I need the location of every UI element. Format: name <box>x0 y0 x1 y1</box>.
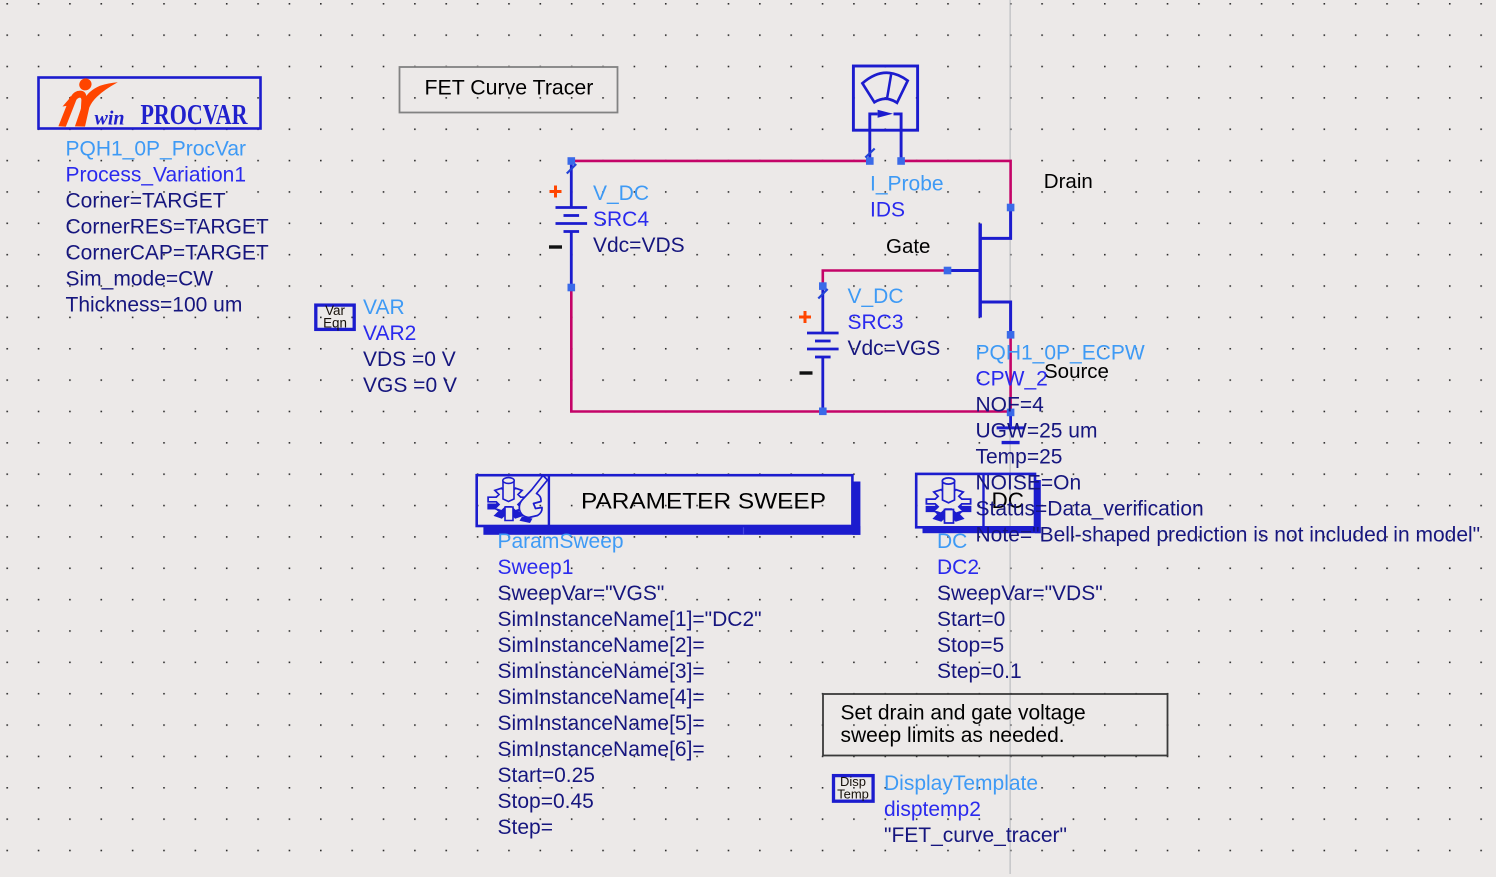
svg-text:SimInstanceName[1]="DC2": SimInstanceName[1]="DC2" <box>498 608 762 631</box>
svg-text:SimInstanceName[6]=: SimInstanceName[6]= <box>498 738 705 761</box>
svg-text:Vdc=VDS: Vdc=VDS <box>593 234 685 257</box>
svg-text:Drain: Drain <box>1044 170 1093 193</box>
svg-text:SimInstanceName[2]=: SimInstanceName[2]= <box>498 634 705 657</box>
svg-text:Stop=5: Stop=5 <box>937 634 1004 657</box>
svg-text:Start=0.25: Start=0.25 <box>498 764 595 787</box>
svg-text:Set drain and gate voltage: Set drain and gate voltage <box>841 702 1086 725</box>
svg-text:SimInstanceName[4]=: SimInstanceName[4]= <box>498 686 705 709</box>
svg-text:SimInstanceName[5]=: SimInstanceName[5]= <box>498 712 705 735</box>
svg-text:FET Curve Tracer: FET Curve Tracer <box>425 76 594 100</box>
svg-text:Note="Bell-shaped prediction i: Note="Bell-shaped prediction is not incl… <box>976 524 1481 547</box>
svg-text:Sweep1: Sweep1 <box>498 556 574 579</box>
svg-text:ParamSweep: ParamSweep <box>498 530 624 553</box>
svg-text:NOISE=On: NOISE=On <box>976 472 1082 495</box>
svg-text:SRC4: SRC4 <box>593 208 649 231</box>
svg-text:V_DC: V_DC <box>848 285 904 308</box>
svg-text:DC: DC <box>937 530 967 553</box>
svg-text:UGW=25 um: UGW=25 um <box>976 420 1098 443</box>
svg-text:CPW_2: CPW_2 <box>976 368 1048 391</box>
svg-text:PARAMETER SWEEP: PARAMETER SWEEP <box>581 489 826 514</box>
svg-text:IDS: IDS <box>870 199 905 222</box>
svg-text:DisplayTemplate: DisplayTemplate <box>884 772 1038 795</box>
svg-text:SRC3: SRC3 <box>848 311 904 334</box>
svg-text:VDS =0 V: VDS =0 V <box>363 348 456 371</box>
svg-text:DC2: DC2 <box>937 556 979 579</box>
svg-text:VGS =0 V: VGS =0 V <box>363 374 457 397</box>
svg-text:Gate: Gate <box>886 235 930 258</box>
svg-text:PQH1_0P_ECPW: PQH1_0P_ECPW <box>976 342 1145 365</box>
svg-text:Step=0.1: Step=0.1 <box>937 660 1022 683</box>
svg-text:Thickness=100 um: Thickness=100 um <box>66 294 243 317</box>
svg-text:Step=: Step= <box>498 816 553 839</box>
svg-text:Temp: Temp <box>837 787 869 802</box>
svg-text:I_Probe: I_Probe <box>870 173 944 196</box>
svg-text:Corner=TARGET: Corner=TARGET <box>66 190 226 213</box>
svg-text:PQH1_0P_ProcVar: PQH1_0P_ProcVar <box>66 138 247 161</box>
svg-text:Status=Data_verification: Status=Data_verification <box>976 498 1204 521</box>
svg-text:Eqn: Eqn <box>323 316 347 331</box>
svg-text:Start=0: Start=0 <box>937 608 1005 631</box>
svg-text:CornerRES=TARGET: CornerRES=TARGET <box>66 216 269 239</box>
svg-text:disptemp2: disptemp2 <box>884 798 981 821</box>
svg-text:SweepVar="VDS": SweepVar="VDS" <box>937 582 1103 605</box>
svg-text:CornerCAP=TARGET: CornerCAP=TARGET <box>66 242 269 265</box>
svg-text:SweepVar="VGS": SweepVar="VGS" <box>498 582 665 605</box>
svg-text:sweep limits as needed.: sweep limits as needed. <box>841 724 1065 747</box>
svg-text:Temp=25: Temp=25 <box>976 446 1063 469</box>
svg-text:Process_Variation1: Process_Variation1 <box>66 164 247 187</box>
svg-text:SimInstanceName[3]=: SimInstanceName[3]= <box>498 660 705 683</box>
svg-text:Stop=0.45: Stop=0.45 <box>498 790 594 813</box>
svg-text:NOF=4: NOF=4 <box>976 394 1045 417</box>
svg-text:PROCVAR: PROCVAR <box>141 100 249 131</box>
svg-text:V_DC: V_DC <box>593 182 649 205</box>
svg-text:"FET_curve_tracer": "FET_curve_tracer" <box>884 824 1067 847</box>
svg-text:Sim_mode=CW: Sim_mode=CW <box>66 268 214 291</box>
svg-text:Vdc=VGS: Vdc=VGS <box>848 337 941 360</box>
svg-text:VAR: VAR <box>363 296 405 319</box>
svg-text:VAR2: VAR2 <box>363 322 416 345</box>
svg-text:win: win <box>95 107 125 129</box>
